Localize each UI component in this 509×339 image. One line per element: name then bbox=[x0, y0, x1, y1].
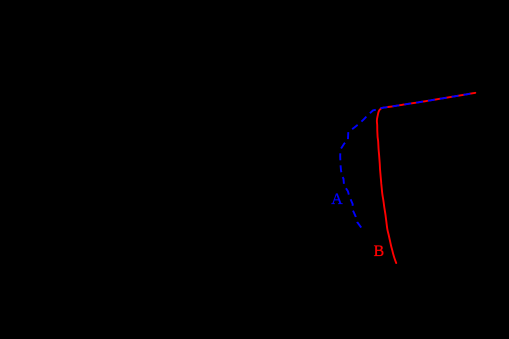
svg-text:B: B bbox=[374, 243, 385, 260]
svg-text:A: A bbox=[331, 191, 343, 208]
